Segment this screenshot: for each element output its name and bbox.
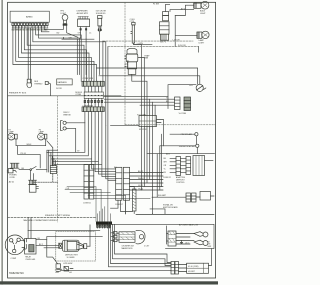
svg-text:C-41: C-41 xyxy=(66,188,70,190)
long wire left run xyxy=(28,231,102,237)
wire trunk to water valve 2 xyxy=(99,76,200,84)
big connector J6 column 2 xyxy=(123,167,129,200)
signal wire row xyxy=(152,196,186,198)
svg-text:L1: L1 xyxy=(89,32,91,34)
svg-text:WH-F: WH-F xyxy=(27,144,33,146)
big connector J6 column 1 xyxy=(116,167,122,200)
wire pin12 stub xyxy=(41,26,49,32)
wires J6 right side xyxy=(130,173,163,191)
spade terminal wires xyxy=(176,234,194,245)
wire pin10 to trunk top xyxy=(36,26,81,82)
wires CN4 feed xyxy=(65,181,150,225)
svg-text:LIGHT: LIGHT xyxy=(200,13,206,15)
wires J6 bottom xyxy=(111,200,133,214)
hi limit connector J9 xyxy=(171,262,175,275)
bus wire top xyxy=(62,37,94,39)
label smudge band under P1 xyxy=(12,29,48,31)
valve connector wires xyxy=(104,96,174,105)
svg-text:16 OHMS: 16 OHMS xyxy=(67,257,76,259)
svg-text:SIG-EMIT: SIG-EMIT xyxy=(158,195,167,197)
dashed boundary fresh food section xyxy=(124,2,126,125)
svg-text:FREEZER COMPT WIRING: FREEZER COMPT WIRING xyxy=(45,215,71,217)
wire pin9 to bundle B xyxy=(33,26,106,42)
ground plug 2 xyxy=(64,267,69,272)
wire pin6 to bundle B xyxy=(27,26,84,82)
wire R-DOOR xyxy=(108,46,199,48)
svg-text:PK-16: PK-16 xyxy=(21,153,26,155)
wire pin5 to trunk xyxy=(24,26,86,82)
svg-text:HTR 600W: HTR 600W xyxy=(63,263,72,265)
svg-text:4 CKT: 4 CKT xyxy=(144,245,150,247)
trunk lower fanout xyxy=(47,112,116,181)
wire relay feeds xyxy=(28,217,31,238)
ADC wire labels xyxy=(164,158,168,174)
start relay and overload K1 xyxy=(25,238,36,254)
wires molex to CN2 xyxy=(85,99,102,107)
svg-text:YL: YL xyxy=(164,169,166,171)
board connector P1 pins xyxy=(12,23,48,26)
ground assembly xyxy=(56,264,61,269)
wires CN3 bottom xyxy=(142,127,153,214)
dashed divider fresh food bottom xyxy=(125,124,216,126)
svg-text:CONN: CONN xyxy=(75,94,81,96)
svg-text:GND: GND xyxy=(55,272,60,274)
icemaker jaw xyxy=(136,230,145,244)
ADC connector A xyxy=(176,157,181,176)
wire lamp diagonal xyxy=(47,141,53,166)
wire evap label xyxy=(134,45,142,116)
svg-text:BK-12: BK-12 xyxy=(138,171,143,173)
defrost heater HR1 xyxy=(62,240,79,251)
heater right wire xyxy=(89,225,91,246)
svg-text:HARNESS: HARNESS xyxy=(58,81,68,84)
spade terminal lower xyxy=(203,241,208,246)
wire L-DOOR xyxy=(103,40,193,42)
wires from J5 xyxy=(66,123,85,152)
wires CN3 right xyxy=(157,120,164,146)
svg-text:L-DOOR: L-DOOR xyxy=(172,40,180,42)
heater strip resistor R1 xyxy=(133,189,137,211)
svg-text:WH-14: WH-14 xyxy=(138,178,144,180)
ADC connector B xyxy=(186,157,191,175)
icemaker coil xyxy=(119,232,135,243)
svg-text:MACHINE COMPARTMENT WIRING: MACHINE COMPARTMENT WIRING xyxy=(24,219,58,222)
thermostat aux contact xyxy=(45,82,48,85)
svg-text:THERMOSTAT AIR: THERMOSTAT AIR xyxy=(179,145,196,148)
svg-text:SW P2: SW P2 xyxy=(160,42,166,44)
compressor motor M3 xyxy=(5,235,25,255)
svg-text:DOOR: DOOR xyxy=(56,88,62,90)
bundle B wire 1 xyxy=(105,42,107,126)
svg-text:A1 W: A1 W xyxy=(181,7,186,10)
svg-text:SOLENOID: SOLENOID xyxy=(96,13,106,15)
svg-text:AIRBD: AIRBD xyxy=(26,16,33,19)
wire switch to transformer xyxy=(31,171,34,181)
transformer T1 xyxy=(29,180,37,184)
hi limit thermostat box xyxy=(187,263,209,273)
control board U1 xyxy=(10,11,49,22)
wire pin3 to trunk xyxy=(19,26,92,82)
auger motor leads xyxy=(81,27,87,40)
wire CN3 left xyxy=(111,124,140,126)
wires into CN3 top xyxy=(150,99,155,115)
svg-text:AUGER MTR: AUGER MTR xyxy=(77,12,89,15)
svg-text:R-DOOR: R-DOOR xyxy=(178,45,186,47)
divider freezer compartment xyxy=(8,95,121,97)
wire lamp1 upper xyxy=(175,5,194,15)
svg-text:CONTROL: CONTROL xyxy=(176,182,185,184)
wire switch to lamp1 xyxy=(166,4,194,11)
hi limit wires xyxy=(179,265,187,272)
wire J4 down xyxy=(34,174,58,183)
t-stat lead xyxy=(133,43,152,45)
wire lamps bottom xyxy=(16,139,46,146)
svg-text:MAKER MOD: MAKER MOD xyxy=(122,247,134,250)
defrost thermostat B1 xyxy=(27,79,31,83)
svg-text:FZ SW: FZ SW xyxy=(153,4,159,6)
trunk connector J10 column 1 xyxy=(84,165,88,200)
svg-text:BK 2: BK 2 xyxy=(39,244,43,246)
divider machine compartment xyxy=(8,216,96,218)
icemaker enclosure box xyxy=(110,224,214,248)
power cord P2 xyxy=(10,163,19,168)
wire ground run to hi-limit xyxy=(61,269,172,271)
wire pin8 to defrost thermostat xyxy=(30,28,32,83)
trunk wire b xyxy=(79,42,81,75)
svg-text:OVERLOAD: OVERLOAD xyxy=(25,258,36,261)
wires CN1 to molex xyxy=(85,86,102,92)
trunk wire c xyxy=(85,39,87,75)
svg-text:THERMO: THERMO xyxy=(34,84,43,86)
trunk wire a xyxy=(76,39,78,74)
page border frame xyxy=(8,2,216,278)
wires above J4 xyxy=(51,152,56,165)
solenoid leads xyxy=(99,28,101,74)
dashed boundary freezer door xyxy=(57,96,59,222)
evap fan motor M2 xyxy=(127,48,137,54)
wire lamp loop xyxy=(18,146,41,168)
board connector P1 lower hatch row xyxy=(12,26,48,29)
wire pin4 to trunk xyxy=(21,26,89,82)
svg-text:TN-14: TN-14 xyxy=(138,188,143,190)
lamp DS1 leads xyxy=(44,26,78,38)
wire pin7 to defrost thermostat xyxy=(27,28,29,79)
wire color labels under P1 xyxy=(12,30,48,32)
lamp DS3 freezer light 2 xyxy=(197,32,202,38)
scan band bottom edge xyxy=(0,281,218,284)
svg-text:CONN 57: CONN 57 xyxy=(115,204,123,206)
spade terminal upper xyxy=(203,232,208,237)
harness connector label xyxy=(57,79,72,85)
svg-text:QD 3: QD 3 xyxy=(185,242,189,244)
svg-text:YL: YL xyxy=(166,98,168,100)
scan band left edge xyxy=(1,0,4,285)
ground mark xyxy=(180,241,182,244)
wire pair to connector xyxy=(47,150,58,172)
svg-text:V-CONN: V-CONN xyxy=(179,113,187,115)
wire trunk to water valve 1 xyxy=(97,68,198,84)
svg-text:FREEZER PT BOX: FREEZER PT BOX xyxy=(9,93,27,95)
enclosure wires left xyxy=(109,222,172,267)
freezer door connector J4 xyxy=(50,166,56,174)
svg-text:EMITTER BOARD: EMITTER BOARD xyxy=(163,206,178,209)
valve connector J3 xyxy=(175,97,181,110)
wire pin13 to lamp feed xyxy=(43,26,45,30)
svg-text:SW8230Z MC: SW8230Z MC xyxy=(9,272,24,275)
wire pin2 to trunk xyxy=(16,26,94,82)
svg-text:HI LIMIT: HI LIMIT xyxy=(188,271,196,273)
relay wires right xyxy=(36,240,59,248)
wire to lamp2 xyxy=(175,16,197,47)
svg-text:CONN 61: CONN 61 xyxy=(83,203,91,205)
svg-text:LIGHT: LIGHT xyxy=(199,42,205,44)
svg-text:ADC: ADC xyxy=(166,153,171,156)
svg-text:COMP: COMP xyxy=(11,258,17,260)
door switch S4 xyxy=(30,169,32,171)
svg-text:WIRE BK: WIRE BK xyxy=(63,114,71,116)
svg-text:CONN 12: CONN 12 xyxy=(163,177,171,179)
wire pin11 to trunk top xyxy=(39,26,80,42)
pass through connector CN4 xyxy=(96,222,112,225)
valve feed connector J8 xyxy=(168,231,176,246)
svg-text:AD 41: AD 41 xyxy=(9,181,14,184)
ADC wires xyxy=(170,158,186,172)
bundle B wire 2 xyxy=(107,47,109,181)
wire long right xyxy=(147,153,215,155)
wire pin1 to trunk xyxy=(13,26,97,82)
svg-text:CORD: CORD xyxy=(9,177,15,179)
paper background xyxy=(0,0,218,285)
emitter connectors J7 xyxy=(186,193,191,202)
trunk connector J10 column 2 xyxy=(89,165,93,200)
svg-text:CONN S316: CONN S316 xyxy=(83,78,94,80)
evap fan leads xyxy=(132,58,147,116)
crossing verticals right of J6 xyxy=(157,134,161,197)
lamp DS2 freezer light xyxy=(194,3,201,8)
wire cord to switch xyxy=(19,169,30,171)
emitter board block xyxy=(200,192,211,201)
icemaker feed pins xyxy=(114,232,118,235)
defrost heater left terminal xyxy=(59,243,63,248)
wire lower right horizontals xyxy=(136,209,214,215)
defrost heater dashed box xyxy=(56,232,96,261)
svg-text:GY-12: GY-12 xyxy=(138,185,143,187)
svg-text:41-10 (124F): 41-10 (124F) xyxy=(188,266,199,268)
svg-text:A/POWER MAIN CON: A/POWER MAIN CON xyxy=(179,224,199,227)
water valve housing box xyxy=(168,85,196,109)
svg-text:FZ 12CK: FZ 12CK xyxy=(139,129,147,131)
wire to ground xyxy=(47,237,58,264)
svg-text:FAN: FAN xyxy=(145,57,149,60)
ADC board xyxy=(193,156,205,176)
connector bar CN2 xyxy=(82,107,104,112)
hi limit loop wire xyxy=(209,249,212,266)
